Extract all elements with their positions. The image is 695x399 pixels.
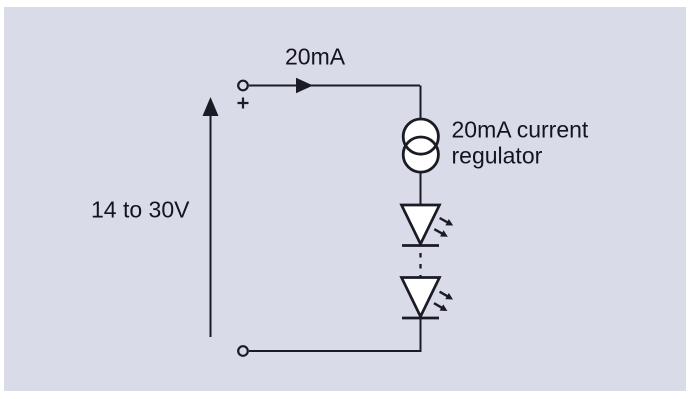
dashed wire (more LEDs in series) bbox=[419, 253, 421, 278]
current direction arrow (20mA) bbox=[296, 78, 313, 94]
LED D1 bbox=[402, 205, 455, 246]
wire (bottom horizontal, corner to terminal) bbox=[249, 350, 422, 352]
wire (right vertical, corner to regulator) bbox=[420, 86, 422, 121]
svg-text:20mA current: 20mA current bbox=[452, 116, 589, 142]
wire (top horizontal, terminal to corner) bbox=[249, 85, 420, 87]
current regulator U1 (20mA current source, two overlapping circles) bbox=[403, 119, 438, 172]
wire (regulator to LED D1) bbox=[420, 172, 422, 206]
svg-text:14 to 30V: 14 to 30V bbox=[91, 197, 190, 223]
label + (polarity) bbox=[238, 98, 249, 109]
svg-text:regulator: regulator bbox=[452, 142, 543, 168]
voltage arrow (14 to 30V supply range) bbox=[203, 97, 219, 337]
svg-text:20mA: 20mA bbox=[285, 44, 346, 70]
terminal (negative return, bottom-left) bbox=[238, 346, 248, 356]
LED D2 bbox=[402, 278, 455, 319]
wire (LED D2 to bottom corner) bbox=[420, 318, 422, 352]
terminal (positive input, top-left) bbox=[238, 81, 248, 91]
